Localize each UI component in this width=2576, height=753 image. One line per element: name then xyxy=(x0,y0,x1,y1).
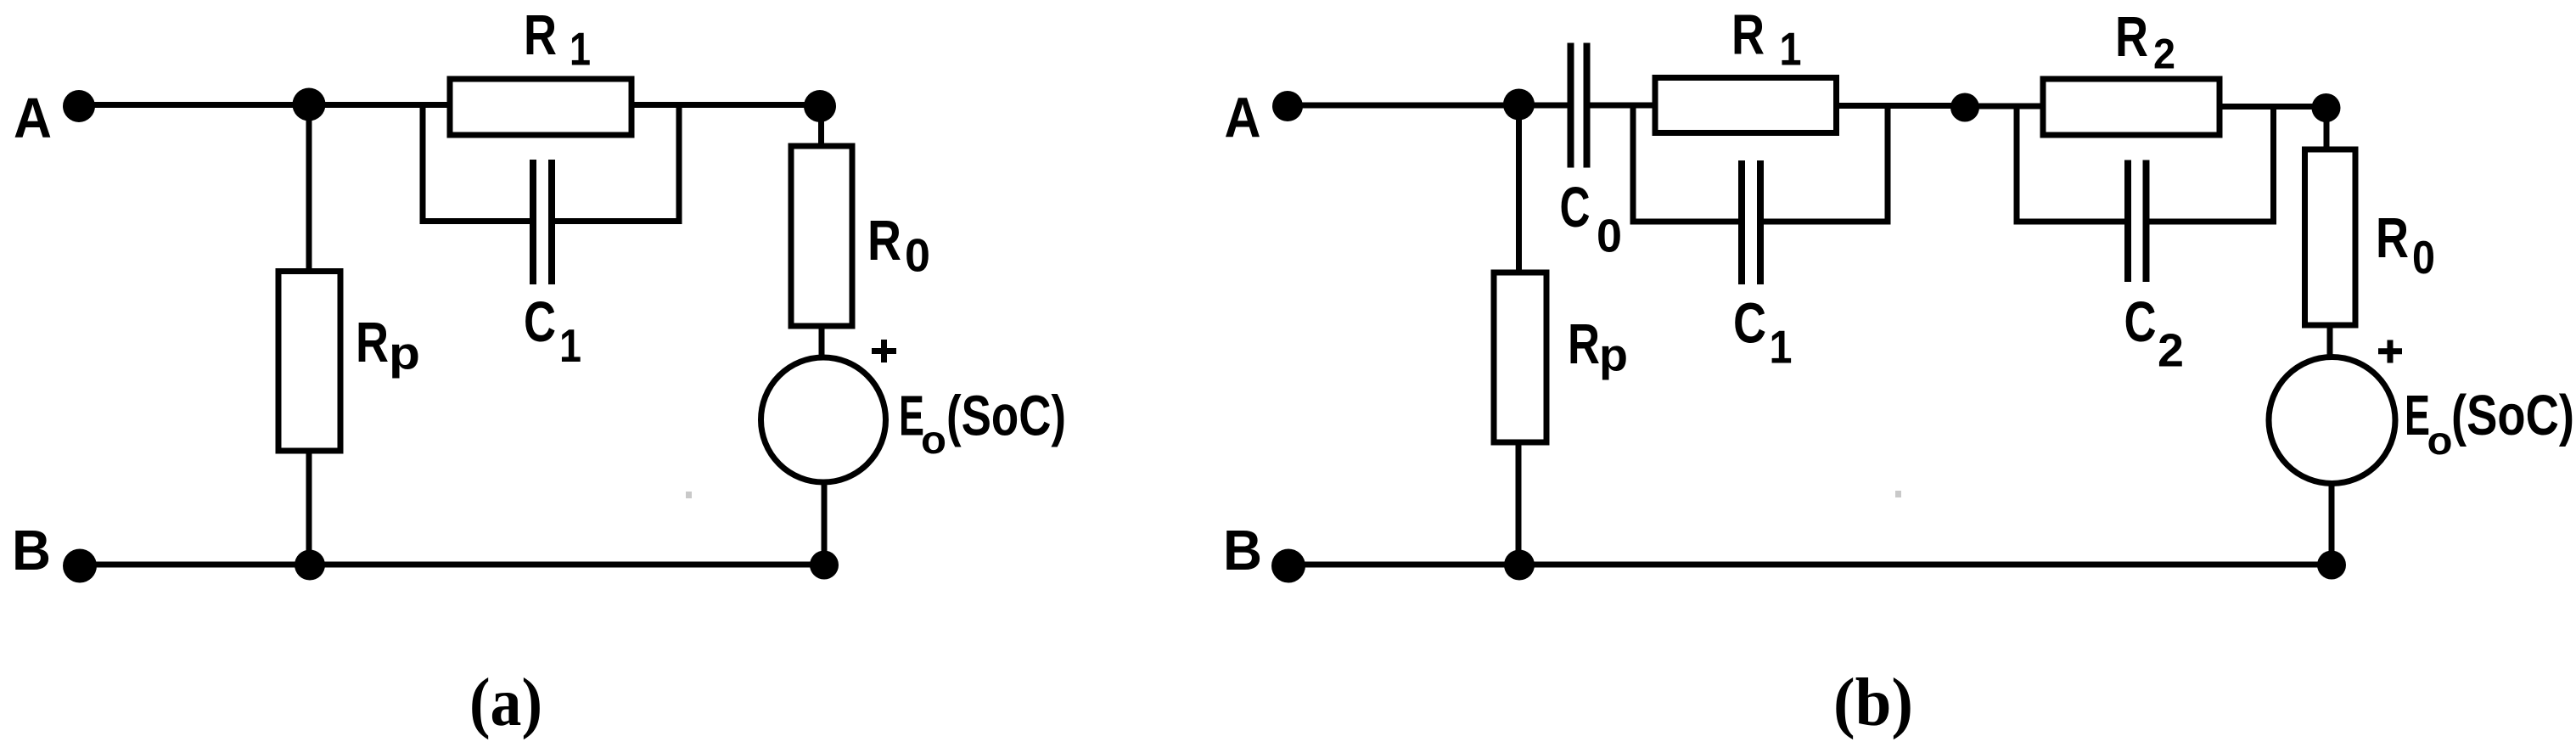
resistor Rp (a) xyxy=(278,272,340,452)
B rail wire (a) xyxy=(80,562,824,568)
svg-text:A: A xyxy=(1225,87,1261,150)
svg-text:o: o xyxy=(921,418,946,462)
label R1 (b) xyxy=(1731,3,1802,76)
svg-text:C: C xyxy=(2124,290,2157,354)
wire C2 branch right (b) xyxy=(2149,106,2274,222)
wire C0 to R1C1 network (b) xyxy=(1590,103,1655,109)
svg-text:C: C xyxy=(1733,292,1766,356)
label E0(SoC) (b) xyxy=(2405,384,2574,463)
svg-text:A: A xyxy=(14,87,52,150)
svg-text:(SoC): (SoC) xyxy=(2451,384,2574,447)
node dot top-right (b) xyxy=(2312,93,2341,122)
svg-text:E: E xyxy=(2405,384,2430,447)
svg-text:(a): (a) xyxy=(469,666,542,740)
terminal dot node A (b) xyxy=(1272,91,1303,121)
svg-text:(SoC): (SoC) xyxy=(946,385,1066,448)
label C2 (b) xyxy=(2124,290,2185,377)
wire middle node to R2C2 network (b) xyxy=(1965,104,2043,110)
node A (b) label xyxy=(1225,87,1261,150)
svg-text:(b): (b) xyxy=(1833,666,1913,740)
terminal dot node B (a) xyxy=(63,549,97,583)
wire R0 to source (b) xyxy=(2327,325,2333,357)
label R0 (a) xyxy=(867,209,930,282)
svg-text:B: B xyxy=(1223,519,1262,582)
wire junction to C0 (b) xyxy=(1519,103,1568,109)
wire junction down to Rp (b) xyxy=(1516,105,1522,273)
wire node A to junction (b) xyxy=(1288,103,1519,109)
svg-text:0: 0 xyxy=(2412,231,2435,284)
label C1 (b) xyxy=(1733,292,1793,374)
node dot middle (b) xyxy=(1950,93,1979,122)
wire C1 branch right (b) xyxy=(1764,105,1889,222)
svg-text:p: p xyxy=(389,329,420,379)
node dot bottom-right (a) xyxy=(810,551,839,580)
artifact speck (b) xyxy=(1895,491,1901,497)
resistor R2 (b) xyxy=(2043,79,2220,135)
svg-text:1: 1 xyxy=(1770,321,1793,374)
svg-text:1: 1 xyxy=(570,23,591,76)
svg-text:R: R xyxy=(2376,206,2409,270)
resistor R0 (a) xyxy=(791,146,852,326)
svg-text:1: 1 xyxy=(1780,23,1802,76)
label R2 (b) xyxy=(2115,5,2175,78)
terminal dot node A (a) xyxy=(63,90,95,122)
caption (b) xyxy=(1833,666,1913,740)
svg-text:C: C xyxy=(1560,176,1591,239)
junction dot bottom (b) xyxy=(1504,550,1535,581)
wire C1 branch right (a) xyxy=(555,105,680,222)
wire junction down to Rp (a) xyxy=(306,105,312,272)
svg-text:R: R xyxy=(2115,5,2148,69)
wire C1 branch left (b) xyxy=(1633,105,1739,222)
label Rp (a) xyxy=(356,311,420,379)
voltage source E0 (a) xyxy=(761,357,886,482)
wire source to B rail (a) xyxy=(822,482,828,565)
node A (a) label xyxy=(14,87,52,150)
junction dot top (a) xyxy=(293,88,326,121)
svg-text:0: 0 xyxy=(1597,210,1622,262)
svg-text:R: R xyxy=(1568,312,1600,376)
svg-text:B: B xyxy=(12,519,51,582)
svg-text:R: R xyxy=(1731,3,1765,67)
junction dot top (b) xyxy=(1503,89,1535,121)
svg-text:o: o xyxy=(2427,419,2453,463)
resistor R1 (b) xyxy=(1655,78,1837,133)
wire node to R0 (b) xyxy=(2324,108,2330,149)
svg-text:2: 2 xyxy=(2158,324,2184,377)
svg-text:0: 0 xyxy=(905,229,930,282)
svg-text:1: 1 xyxy=(559,319,581,372)
wire source to B rail (b) xyxy=(2329,483,2335,565)
voltage source E0 (b) xyxy=(2269,357,2395,484)
label R1 (a) xyxy=(524,3,591,76)
wire node A to junction (a) xyxy=(79,102,309,108)
svg-text:R: R xyxy=(867,209,901,273)
wire Rp to B rail (b) xyxy=(1516,442,1522,565)
wire C2 branch left (b) xyxy=(2017,106,2125,222)
node B (b) label xyxy=(1223,519,1262,582)
svg-text:R: R xyxy=(524,3,557,67)
node dot bottom-right (b) xyxy=(2317,551,2346,580)
junction dot bottom (a) xyxy=(295,550,325,581)
node B (a) label xyxy=(12,519,51,582)
label C0 (b) xyxy=(1560,176,1623,262)
wire R1 to top-right node (a) xyxy=(631,102,820,108)
resistor Rp (b) xyxy=(1494,273,1546,442)
label Rp (b) xyxy=(1568,312,1628,381)
plus polarity mark (b) xyxy=(2378,340,2402,363)
label E0(SoC) (a) xyxy=(899,385,1066,463)
svg-text:R: R xyxy=(356,311,389,374)
wire Rp to B rail (a) xyxy=(306,451,312,565)
resistor R1 (a) xyxy=(450,79,631,135)
wire R2 to right node (b) xyxy=(2220,104,2326,110)
svg-text:p: p xyxy=(1599,330,1628,381)
wire C1 branch left (a) xyxy=(423,105,530,222)
terminal dot node B (b) xyxy=(1271,549,1305,583)
plus polarity mark (a) xyxy=(872,340,896,362)
caption (a) xyxy=(469,666,542,740)
capacitor C0 (b) xyxy=(1571,43,1587,168)
wire R0 to source (a) xyxy=(819,326,825,357)
capacitor C2 (b) xyxy=(2128,160,2147,283)
svg-text:C: C xyxy=(524,290,556,354)
label R0 (b) xyxy=(2376,206,2435,284)
artifact speck (a) xyxy=(686,492,692,498)
node dot top-right (a) xyxy=(804,90,836,122)
resistor R0 (b) xyxy=(2305,149,2356,325)
label C1 (a) xyxy=(524,290,581,372)
B rail wire (b) xyxy=(1288,562,2332,568)
capacitor C1 (a) xyxy=(533,160,552,284)
wire node to R0 (a) xyxy=(818,106,824,146)
wire junction to R1C1 network (a) xyxy=(309,102,450,108)
svg-text:2: 2 xyxy=(2153,31,2175,78)
wire R1 to middle node (b) xyxy=(1837,103,1966,109)
capacitor C1 (b) xyxy=(1742,160,1760,284)
